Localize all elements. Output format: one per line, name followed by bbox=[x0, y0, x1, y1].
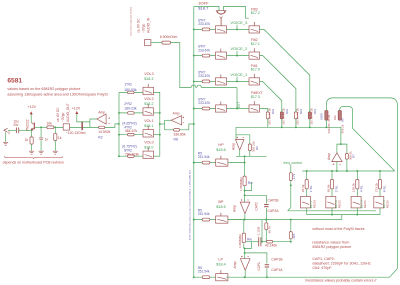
resistor Rw2 bbox=[243, 220, 245, 233]
switch VOL1 bbox=[143, 130, 154, 137]
svg-text:CAP1A: CAP1A bbox=[271, 268, 283, 272]
svg-text:1*R1: 1*R1 bbox=[309, 185, 313, 192]
svg-text:RES3: RES3 bbox=[312, 200, 316, 208]
svg-text:resistance values from: resistance values from bbox=[312, 240, 349, 244]
svg-text:AUDIO_IN: AUDIO_IN bbox=[147, 17, 151, 33]
svg-text:values based on the 6581R2 pol: values based on the 6581R2 polygon pictu… bbox=[7, 87, 80, 91]
net resonance bottom bus bbox=[307, 214, 380, 216]
resistor ~3k5 freq 2 bbox=[290, 219, 292, 221]
svg-text:HP: HP bbox=[218, 143, 224, 147]
svg-text:484-67k: 484-67k bbox=[125, 129, 138, 133]
resistor 48.7k DC path 2 bbox=[265, 219, 267, 221]
switch Filt1 bbox=[249, 78, 260, 85]
control tick VOL0 bbox=[147, 148, 149, 152]
switch VOL0 bbox=[143, 151, 154, 158]
svg-text:~3k5: ~3k5 bbox=[292, 233, 296, 240]
svg-text:1.058598M: 1.058598M bbox=[238, 234, 242, 248]
switch BP $18.5 bbox=[216, 216, 228, 223]
wire filter input resistor 3 bottom bbox=[295, 119, 297, 127]
svg-text:RES1: RES1 bbox=[363, 200, 367, 208]
node VOICE_1 tick bbox=[236, 77, 238, 82]
svg-text:28.3k: 28.3k bbox=[301, 184, 305, 192]
node LP row on mixer bus bbox=[193, 276, 195, 278]
svg-text:2*R2: 2*R2 bbox=[124, 102, 132, 106]
switch bypass voice 2 bbox=[216, 52, 227, 59]
resistor ladder 2 bbox=[128, 112, 135, 115]
svg-text:PN2222: PN2222 bbox=[26, 119, 30, 131]
wire filt3 route to filter resistor 4 bbox=[260, 29, 310, 110]
wire BP switch to filter bbox=[228, 219, 244, 221]
wire sum bus to resonance amp bbox=[340, 127, 342, 144]
wire LP row bbox=[194, 276, 216, 278]
node HP row connection bbox=[244, 156, 246, 176]
switch VOL3 bbox=[143, 87, 154, 94]
wire voice row 3 left bbox=[194, 28, 216, 30]
wire base to 10k bbox=[35, 126, 47, 128]
op-amp input marks bbox=[236, 137, 244, 139]
wire summing amp output / HP node bbox=[249, 151, 251, 157]
node base junction bbox=[40, 126, 42, 128]
svg-text:VOL2: VOL2 bbox=[144, 97, 153, 101]
wire voice row 2 left bbox=[194, 55, 216, 57]
pad AUDIO_IN bbox=[145, 40, 151, 46]
net ~1.12M poly trace 2 bbox=[261, 220, 263, 242]
wire 3OFF gate top-left connection bbox=[194, 7, 219, 11]
wire resonance resistor 2 to switch bbox=[356, 189, 358, 197]
wire freq control to caps bbox=[290, 181, 292, 208]
svg-text:233-67k: 233-67k bbox=[198, 101, 210, 105]
node resonance bus 3 bbox=[379, 170, 381, 172]
svg-text:$18.5: $18.5 bbox=[216, 205, 226, 209]
switch RES0 $17.4 bbox=[374, 197, 384, 208]
svg-text:4*R1: 4*R1 bbox=[360, 185, 364, 192]
net resonance top bus bbox=[302, 170, 394, 172]
gate 3OFF (voice 3 off switch) bbox=[216, 11, 227, 15]
switch Filt3 bbox=[249, 26, 260, 33]
wire output amp loop bbox=[90, 119, 97, 128]
wire filter input resistor 1 top stub bbox=[267, 109, 269, 112]
ground (1n) bbox=[39, 151, 44, 154]
wire voice EXT node bbox=[227, 108, 250, 110]
svg-text:6R2: 6R2 bbox=[271, 109, 275, 115]
wire voice 1 node bbox=[227, 80, 250, 82]
svg-text:assuming 13k/square active are: assuming 13k/square active area and 130O… bbox=[7, 93, 107, 97]
control tick VOL1 bbox=[147, 126, 149, 130]
svg-text:$18.6: $18.6 bbox=[216, 148, 226, 152]
svg-text:$18.2: $18.2 bbox=[144, 102, 153, 106]
svg-text:$17.0: $17.0 bbox=[251, 68, 260, 72]
wire emitter node bbox=[30, 130, 32, 137]
net BP bus bbox=[228, 219, 342, 221]
resistor resonance 4*R1 bbox=[356, 171, 358, 180]
wire filt2 route to filter resistor 3 bbox=[260, 56, 296, 111]
svg-text:VOL1: VOL1 bbox=[144, 119, 153, 123]
wire hop 2 bbox=[196, 85, 201, 87]
svg-text:CAP2A: CAP2A bbox=[267, 209, 279, 213]
wire HP switch to filter bbox=[228, 162, 245, 164]
node resonance bus 0 bbox=[306, 170, 308, 172]
svg-text:+12V: +12V bbox=[72, 107, 81, 111]
wire stage1 cap line to amp input bbox=[245, 182, 252, 190]
switch bypass voice 3 bbox=[216, 26, 227, 33]
control tick VOL3 bbox=[147, 84, 149, 88]
svg-text:RES2: RES2 bbox=[338, 200, 342, 208]
wire BP row bbox=[194, 219, 216, 221]
wire Rw1 to integrator1 input bbox=[244, 186, 246, 202]
wire voice 2 node bbox=[227, 55, 250, 57]
op-amp U2 output amp bbox=[97, 114, 106, 124]
svg-text:without most of the PolySi tra: without most of the PolySi traces bbox=[312, 227, 364, 231]
svg-text:6581: 6581 bbox=[7, 77, 22, 84]
switch RES1 $17.5 bbox=[351, 197, 361, 208]
wire mixer amp feedback loop bbox=[165, 120, 194, 130]
svg-text:233-67k: 233-67k bbox=[198, 22, 210, 26]
wire summing amp feedback top bbox=[236, 135, 250, 144]
wire filter input resistor 4 top stub bbox=[309, 109, 311, 112]
resistor filter input 2 bbox=[280, 112, 283, 119]
svg-text:$17.2: $17.2 bbox=[251, 11, 260, 15]
wire cap to pin bbox=[8, 129, 16, 131]
switch Filt2 bbox=[249, 52, 260, 59]
svg-text:Rw: Rw bbox=[247, 238, 252, 242]
wire LP long return to right edge bbox=[245, 276, 390, 278]
resistor 1k emitter bbox=[30, 137, 33, 144]
svg-text:~120.13Ohm: ~120.13Ohm bbox=[66, 131, 86, 135]
capacitor 1n to ground bbox=[40, 127, 42, 137]
op-amp U1 mixer amp bbox=[171, 116, 182, 125]
ground (pulldown) bbox=[53, 151, 58, 154]
svg-text:Amp: Amp bbox=[233, 261, 237, 268]
switch FiltEXT bbox=[249, 105, 260, 112]
resistor 10k bbox=[47, 126, 54, 129]
node ladder input bus row 2 bbox=[118, 112, 120, 114]
wire CAP2 branch bbox=[245, 195, 267, 219]
wire freq control vertical bbox=[290, 165, 292, 173]
svg-text:42.140k: 42.140k bbox=[265, 244, 277, 248]
wire audio-in route down to EXT row bbox=[171, 43, 191, 88]
svg-text:6.900kOhm: 6.900kOhm bbox=[160, 35, 178, 39]
node ladder input bus row 0 bbox=[118, 155, 120, 157]
resistor resonance 1*R1 bbox=[306, 171, 308, 180]
svg-text:96k: 96k bbox=[333, 115, 337, 120]
net: mixer sum bus bbox=[193, 7, 195, 278]
svg-text:VOICE_2: VOICE_2 bbox=[230, 46, 248, 51]
svg-text:251.54k: 251.54k bbox=[198, 212, 210, 216]
resistor filter input 1 bbox=[266, 112, 269, 119]
svg-text:25v: 25v bbox=[13, 123, 19, 127]
node VOICE_3 tick bbox=[236, 25, 238, 30]
svg-text:138.0k: 138.0k bbox=[352, 182, 356, 192]
svg-text:CAP1, CAP2:: CAP1, CAP2: bbox=[312, 257, 334, 261]
wire audio-in pad to resistor bbox=[151, 42, 162, 44]
svg-text:180-93k: 180-93k bbox=[124, 88, 137, 92]
svg-text:CAP2B: CAP2B bbox=[267, 198, 279, 202]
svg-text:Rw: Rw bbox=[248, 181, 253, 185]
svg-text:6R2: 6R2 bbox=[313, 109, 317, 115]
svg-text:BP: BP bbox=[218, 200, 224, 204]
wire volume ladder row 1 bbox=[119, 134, 143, 136]
capacitor 10u electrolytic bbox=[16, 128, 18, 134]
ground (pin) bbox=[3, 142, 8, 145]
wire stage2 cap line to amp input bbox=[245, 242, 252, 249]
resistor resonance 2*R1 bbox=[331, 171, 333, 180]
resistor 6*R7 voice 1 (233.67k) bbox=[202, 80, 210, 83]
resistor R5 251.54k (LP) bbox=[202, 276, 210, 279]
switch RES2 $17.6 bbox=[326, 197, 336, 208]
wire Rw2 to integrator2 input bbox=[243, 243, 245, 248]
svg-text:325.7k: 325.7k bbox=[282, 116, 286, 125]
wire HP row bbox=[194, 162, 216, 164]
resistor ladder 3 bbox=[128, 91, 135, 94]
wire voice row EXT left bbox=[194, 108, 216, 110]
control tick bypass switch 2 bbox=[220, 49, 222, 52]
capacitor CAP2 external plates bbox=[264, 204, 268, 206]
svg-text:VOL0: VOL0 bbox=[144, 140, 153, 144]
control tick bypass switch 1 bbox=[220, 74, 222, 77]
resistor poly r5 bbox=[325, 111, 328, 121]
svg-text:+12V: +12V bbox=[28, 105, 37, 109]
capacitor integrator 2 plates bbox=[259, 237, 261, 246]
resistor 308.6k resonance feedback bbox=[345, 154, 348, 160]
svg-text:~3Vpp: ~3Vpp bbox=[61, 112, 65, 122]
control tick BP bbox=[220, 213, 222, 216]
wire volume ladder row 2 bbox=[119, 112, 143, 114]
svg-text:63R8: 63R8 bbox=[320, 113, 324, 120]
control tick VOL2 bbox=[147, 104, 149, 108]
svg-text:251.54k: 251.54k bbox=[198, 270, 210, 274]
wire resonance amp output to bus bbox=[336, 162, 338, 172]
wire switch RES2 bottom bbox=[331, 208, 333, 215]
svg-text:ca. 6V DC: ca. 6V DC bbox=[56, 107, 60, 122]
connector pin 3 bbox=[4, 128, 8, 132]
svg-text:$18.7: $18.7 bbox=[198, 6, 209, 11]
switch HP $18.6 bbox=[216, 159, 228, 166]
wire switch RES3 bottom bbox=[306, 208, 308, 215]
svg-text:R6: R6 bbox=[255, 146, 259, 150]
node voice row 3 junction on mixer bus bbox=[193, 28, 195, 30]
wire filter input resistor 2 top stub bbox=[281, 109, 283, 112]
svg-text:233-67k: 233-67k bbox=[198, 74, 210, 78]
svg-text://resistance values probably c: //resistance values probably contain err… bbox=[305, 279, 377, 283]
svg-text:$18.1: $18.1 bbox=[144, 124, 153, 128]
resistor R8 330.85k feedback bbox=[174, 129, 180, 132]
svg-text:LP: LP bbox=[218, 258, 223, 262]
control tick FiltEXT bbox=[253, 101, 255, 105]
svg-text:2*R1: 2*R1 bbox=[334, 185, 338, 192]
svg-text:1k: 1k bbox=[58, 136, 62, 140]
svg-text:VOL3: VOL3 bbox=[144, 72, 153, 76]
resistor filter input 3 bbox=[294, 112, 297, 119]
control tick HP bbox=[220, 156, 222, 159]
wire freq control distribution bbox=[288, 208, 291, 211]
wire 42.140k to 3k5 bbox=[273, 241, 291, 243]
resistor 6*R7 voice EXT (233.67k) bbox=[202, 107, 210, 110]
svg-text:1n: 1n bbox=[45, 137, 49, 141]
svg-text:CAP1: CAP1 bbox=[257, 262, 261, 271]
wire resonance resistor 0 to switch bbox=[306, 189, 308, 197]
svg-text:R7: R7 bbox=[351, 154, 355, 158]
wire LP switch to filter bbox=[226, 276, 244, 278]
svg-text:6R2: 6R2 bbox=[299, 109, 303, 115]
svg-text:~1.12M: ~1.12M bbox=[257, 226, 261, 237]
wire resonance return to BP bbox=[341, 215, 343, 220]
svg-text:~3Vpp: ~3Vpp bbox=[141, 23, 145, 33]
wire W2 r6 top jog bbox=[340, 107, 395, 171]
op-amp U4 integrator 1 bbox=[240, 202, 250, 214]
wire cap input line 2 bbox=[246, 241, 259, 243]
node VOICE_EXT tick bbox=[236, 88, 238, 109]
wire filter input resistor 4 bottom bbox=[309, 119, 311, 127]
wire audio out bbox=[54, 126, 90, 128]
svg-text:8*R1: 8*R1 bbox=[382, 185, 386, 192]
svg-text:datasheet: 2200pF for 30Hz..12: datasheet: 2200pF for 30Hz..12kHz bbox=[312, 262, 370, 266]
wire filter summing bus bbox=[236, 126, 341, 128]
svg-text:RES0: RES0 bbox=[386, 200, 390, 208]
node VOICE_2 tick bbox=[236, 51, 238, 56]
node BP row on mixer bus bbox=[193, 219, 195, 221]
switch bypass voice EXT bbox=[216, 105, 227, 112]
wire W1 r5 top to right edge loop bbox=[326, 98, 397, 269]
switch bypass voice 1 bbox=[216, 78, 227, 85]
wire CAP1 branch bbox=[245, 253, 267, 277]
ground (emitter 1k) bbox=[29, 151, 34, 154]
node resonance bus 2 bbox=[356, 170, 358, 172]
wire audio-in to EXT row tick bbox=[202, 87, 237, 89]
net: volume ladder output bus bbox=[154, 92, 160, 156]
switch RES3 $17.7 bbox=[301, 197, 311, 208]
net: volume ladder input bus bbox=[118, 92, 120, 156]
resistor Rw1 1.058598M bbox=[243, 176, 246, 186]
pad AUDIO_OUT bbox=[63, 124, 69, 130]
svg-text:EXT: EXT bbox=[237, 102, 241, 108]
op-amp U6 resonance amp bbox=[332, 153, 342, 162]
wire hop over mixer bus bbox=[191, 85, 196, 87]
wire filter input resistor 2 bottom bbox=[281, 119, 283, 127]
wire volume ladder row 0 bbox=[119, 155, 143, 157]
svg-text:Amp: Amp bbox=[232, 205, 236, 212]
svg-text:6581R2 polygon picture: 6581R2 polygon picture bbox=[312, 245, 351, 249]
resistor 1k pulldown bbox=[54, 126, 56, 128]
svg-text:$17.1: $17.1 bbox=[251, 42, 260, 46]
svg-text:330.85k: 330.85k bbox=[174, 132, 186, 136]
svg-text:325.7k: 325.7k bbox=[296, 116, 300, 125]
wire pin shield to ground bbox=[5, 132, 7, 141]
resistor filter input 4 bbox=[308, 112, 311, 119]
node voice row EXT junction on mixer bus bbox=[193, 108, 195, 110]
svg-text:Amp: Amp bbox=[98, 110, 105, 114]
wire filter input resistor 1 bottom bbox=[267, 119, 269, 127]
resistor ~1.7k freq bbox=[289, 173, 292, 181]
svg-text:AUDIO_OUT: AUDIO_OUT bbox=[66, 103, 70, 122]
svg-text:C64: 470pF: C64: 470pF bbox=[312, 266, 332, 270]
switch VOL2 bbox=[143, 108, 154, 115]
svg-text:R2: R2 bbox=[98, 135, 102, 139]
resistor 6*R7 voice 3 (233.67k) bbox=[202, 28, 210, 31]
node ladder input bus row 1 bbox=[118, 134, 120, 136]
wire mixer amp output to ladder bus bbox=[160, 123, 165, 125]
resistor ~120.13Ohm chip output bbox=[81, 121, 83, 130]
svg-text:Amp: Amp bbox=[327, 153, 331, 160]
svg-text:$18.0: $18.0 bbox=[144, 145, 153, 149]
svg-text:65.8k: 65.8k bbox=[326, 184, 330, 192]
control tick bypass switch EXT bbox=[220, 102, 222, 105]
wire switch RES1 bottom bbox=[356, 208, 358, 215]
resistor ladder 1 bbox=[128, 133, 135, 136]
svg-text:233-67k: 233-67k bbox=[198, 48, 210, 52]
wire resonance resistor 3 to switch bbox=[379, 189, 381, 197]
resistor R2 14.592k feedback bbox=[99, 126, 105, 129]
svg-text:ca. 6V DC: ca. 6V DC bbox=[137, 18, 141, 33]
control tick LP bbox=[220, 270, 222, 273]
node voice row 1 junction on mixer bus bbox=[193, 80, 195, 82]
svg-text:14.592k: 14.592k bbox=[98, 130, 110, 134]
control tick Filt2 bbox=[253, 48, 255, 52]
control tick Filt3 bbox=[253, 22, 255, 26]
svg-text:10k: 10k bbox=[46, 121, 52, 125]
wire 3OFF gate right to Filt3 control bbox=[223, 7, 248, 19]
wire filt1 route to filter resistor 2 bbox=[260, 81, 282, 110]
svg-text:189-23k: 189-23k bbox=[124, 107, 137, 111]
wire switch RES0 bottom bbox=[379, 208, 381, 215]
svg-text:~1.7k: ~1.7k bbox=[292, 173, 296, 181]
svg-text:251.54k: 251.54k bbox=[198, 155, 210, 159]
capacitor CAP1 external plates bbox=[265, 264, 269, 269]
net ~1.12M poly trace 1b bbox=[260, 181, 262, 183]
control tick Filt1 bbox=[253, 74, 255, 78]
svg-text:CAP2: CAP2 bbox=[255, 202, 259, 211]
svg-text:bel.fi/~aleksi/really-mostly-a: bel.fi/~aleksi/really-mostly-accurate-sc… bbox=[188, 170, 191, 240]
resistor resonance 8*R1 bbox=[379, 171, 381, 180]
wire volume ladder row 3 bbox=[119, 91, 143, 93]
svg-text:3: 3 bbox=[8, 131, 10, 135]
resistor 42.140k bbox=[261, 241, 266, 243]
svg-text:325.7k: 325.7k bbox=[310, 116, 314, 125]
svg-text:CAP1B: CAP1B bbox=[271, 257, 283, 261]
svg-text:R9: R9 bbox=[340, 118, 344, 122]
wire integrator1 output to BP bus bbox=[244, 214, 246, 220]
svg-text:330.67k: 330.67k bbox=[327, 123, 331, 134]
svg-text:Amp: Amp bbox=[173, 112, 180, 116]
svg-text:VOICE_3: VOICE_3 bbox=[230, 20, 248, 25]
resistor R5 251.54k (HP) bbox=[202, 161, 210, 164]
svg-text:VOICE_1: VOICE_1 bbox=[230, 72, 248, 77]
op-amp U5 integrator 2 bbox=[240, 259, 250, 271]
resistor 6.900kOhm audio in bbox=[162, 41, 171, 44]
svg-text:$17.3: $17.3 bbox=[251, 95, 260, 99]
svg-text:Amp: Amp bbox=[232, 143, 236, 150]
svg-text:R8: R8 bbox=[174, 137, 178, 141]
resistor poly r6 bbox=[338, 111, 341, 121]
resistor R5 251.54k (BP) bbox=[202, 218, 210, 221]
svg-text:1*R2: 1*R2 bbox=[124, 83, 132, 87]
svg-text:$18.4: $18.4 bbox=[216, 263, 226, 267]
svg-text:48.7k: 48.7k bbox=[268, 226, 272, 234]
node voice row 2 junction on mixer bus bbox=[193, 55, 195, 57]
wire resonance resistor 1 to switch bbox=[331, 189, 333, 197]
wire voice 3 node bbox=[227, 28, 250, 30]
svg-text:depends on motherboard PCB rev: depends on motherboard PCB revision bbox=[3, 160, 64, 164]
svg-text:freq_control: freq_control bbox=[284, 161, 303, 165]
resistor ladder 0 bbox=[128, 155, 135, 158]
node resonance bus 1 bbox=[331, 170, 333, 172]
svg-text:$18.3: $18.3 bbox=[144, 77, 153, 81]
wire voice row 1 left bbox=[194, 80, 216, 82]
svg-text:273.2k: 273.2k bbox=[374, 182, 378, 192]
switch LP $18.4 bbox=[216, 274, 228, 281]
resistor 6*R7 voice 2 (233.67k) bbox=[202, 54, 210, 57]
op-amp U3 filter summing amp bbox=[235, 127, 237, 139]
wire filtEXT route to filter resistor 1 bbox=[260, 109, 268, 111]
